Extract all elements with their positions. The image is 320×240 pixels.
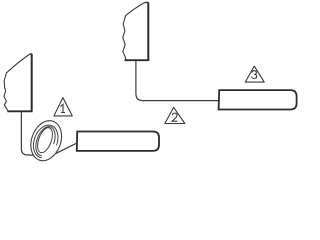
torn flag shape F2 (upper device fragment) [123,3,145,61]
cord from flag F2 with rounded corner to bar B2 [136,61,218,101]
triangle marker 3 [245,66,264,82]
label 2 [172,113,177,121]
wire from coil to bar B1 [56,143,77,153]
bar B2 (right rounded rod) [219,90,297,109]
flag F1 thick right edge [31,54,33,112]
coil of cable: outer loop [26,116,67,165]
triangle marker 1 [54,98,72,116]
flag F2 thick bottom edge [125,59,150,61]
flag F1 top tip [30,53,32,55]
label 1 [60,104,65,112]
coil loop 2 [33,125,58,158]
coil inner loop (hole) [35,126,56,155]
cord segment from flag F1 down to coil [21,112,33,155]
bar B1 (left rounded rod) [77,132,159,151]
flag F2 top tip [145,1,149,3]
flag F1 thick bottom edge [7,110,32,112]
coil loop 3 [36,127,55,156]
label 3 [252,71,257,79]
triangle marker 2 [165,107,185,123]
torn flag shape F1 (left device fragment) [4,54,30,111]
flag F2 thick right edge [147,2,149,60]
